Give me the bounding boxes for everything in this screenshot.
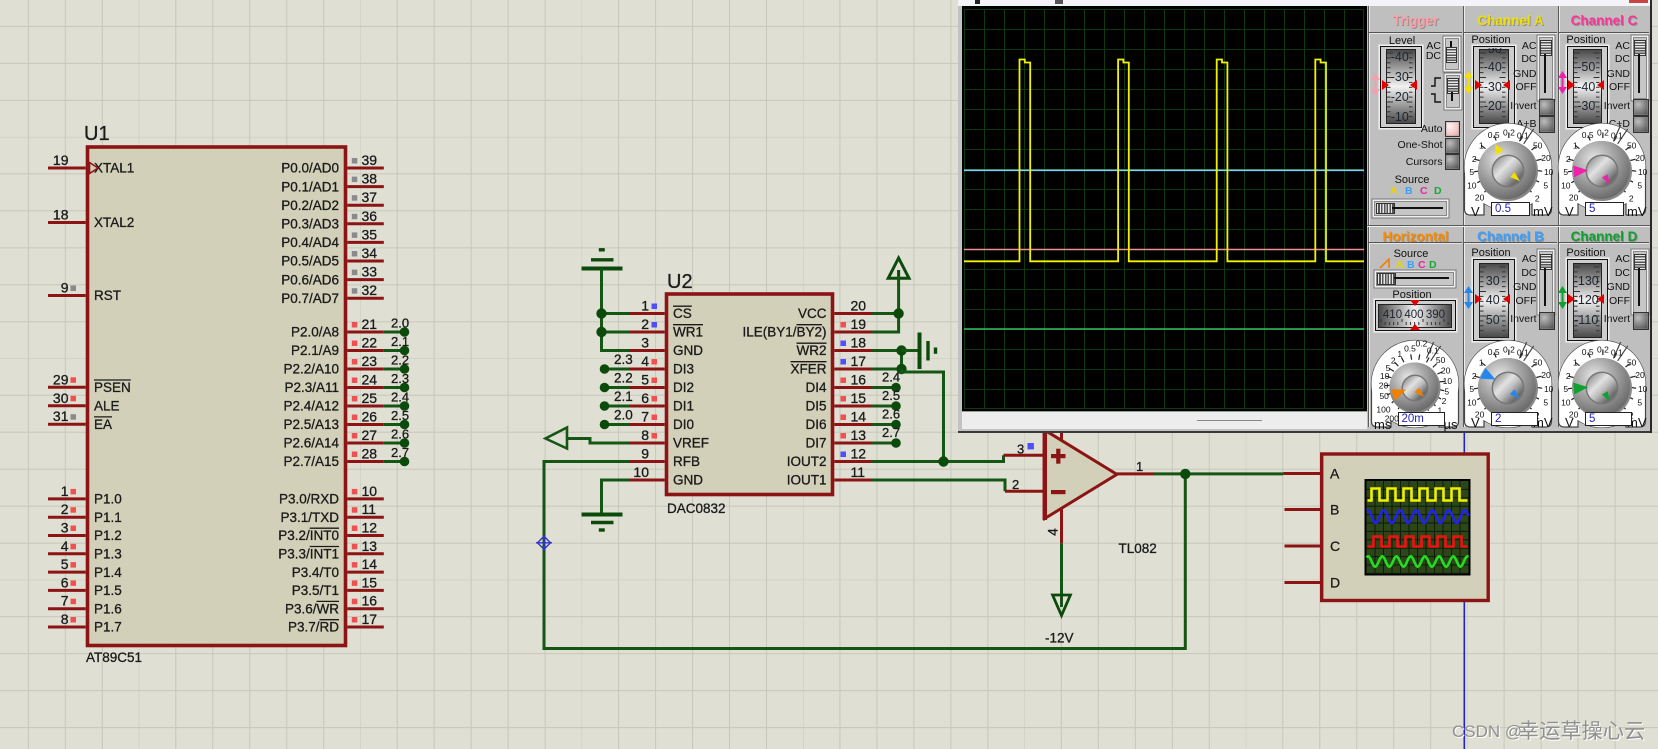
svg-text:19: 19 [851, 316, 867, 332]
svg-text:13: 13 [851, 427, 867, 443]
wire-end dot net 2.2 [600, 383, 610, 393]
horizontal timebase knob [1368, 337, 1462, 429]
svg-text:11: 11 [362, 501, 377, 517]
svg-text:0.2: 0.2 [1503, 344, 1515, 354]
svg-text:0.1: 0.1 [1517, 347, 1529, 357]
power symbol -12V arrow [1053, 595, 1071, 616]
svg-text:PSEN: PSEN [94, 380, 131, 395]
svg-text:P3.6/WR: P3.6/WR [285, 601, 339, 616]
svg-text:2.1: 2.1 [614, 389, 633, 404]
svg-text:15: 15 [362, 574, 378, 590]
wire net 2.0 from pin 21 [384, 331, 402, 334]
graph pin A [1283, 472, 1322, 475]
svg-text:P3.4/T0: P3.4/T0 [292, 565, 339, 580]
wire net 2.3 to U2 DI3 [606, 368, 629, 371]
svg-text:DI1: DI1 [673, 399, 694, 414]
svg-text:0.1: 0.1 [1427, 345, 1439, 355]
wire op-amp output to graph A [1154, 472, 1283, 475]
op-amp pin 4 V- [1060, 508, 1063, 543]
svg-text:P2.1/A9: P2.1/A9 [291, 343, 339, 358]
channel B position line (cyan) [964, 169, 1364, 171]
svg-text:GND: GND [673, 473, 703, 488]
wire net 2.0 to U2 DI0 [606, 423, 629, 426]
svg-text:CS: CS [673, 306, 692, 321]
4-channel analogue graph body [1322, 454, 1489, 601]
channel D position line (green) [964, 328, 1364, 330]
svg-text:VCC: VCC [798, 306, 827, 321]
svg-text:D: D [1330, 575, 1340, 591]
svg-text:5: 5 [1543, 397, 1548, 407]
U1 pin 22 P2.1/A9 [347, 349, 384, 352]
svg-text:DI5: DI5 [805, 399, 826, 414]
svg-text:P2.3/A11: P2.3/A11 [284, 380, 339, 395]
junction dot net 2.0 [400, 327, 410, 337]
wire WR2/XFER ground net [872, 349, 902, 352]
svg-text:14: 14 [851, 409, 867, 425]
channel A gain knob [1461, 120, 1555, 217]
junction dot net 2.1 [400, 346, 410, 356]
U1 pin 35 P0.4/AD4 [347, 241, 384, 244]
svg-text:2: 2 [1442, 396, 1447, 406]
svg-text:37: 37 [362, 189, 378, 205]
svg-text:U2: U2 [667, 271, 693, 293]
U1 pin 16 P3.6/WR [347, 607, 384, 610]
svg-text:6: 6 [61, 574, 69, 590]
svg-text:10: 10 [1638, 384, 1648, 394]
svg-text:5: 5 [1563, 384, 1568, 394]
Channel C panel [1559, 13, 1649, 28]
svg-text:P2.7/A15: P2.7/A15 [283, 454, 339, 469]
U1 pin 4 P1.3 [48, 552, 86, 555]
channel A position gauge [1473, 46, 1515, 128]
svg-text:0.5: 0.5 [1488, 130, 1500, 140]
svg-text:16: 16 [851, 372, 867, 388]
svg-text:C: C [1330, 538, 1340, 554]
U1 pin 2 P1.1 [48, 516, 86, 519]
svg-text:0.1: 0.1 [1611, 130, 1623, 140]
svg-text:4: 4 [61, 538, 69, 554]
U1 pin 27 P2.6/A14 [347, 442, 384, 445]
svg-text:P3.5/T1: P3.5/T1 [292, 583, 339, 598]
U1 pin 12 P3.2/INT0 [347, 534, 384, 537]
svg-text:P1.2: P1.2 [94, 528, 122, 543]
svg-text:RST: RST [94, 288, 121, 303]
svg-text:IOUT2: IOUT2 [787, 454, 827, 469]
svg-text:20: 20 [1541, 153, 1551, 163]
svg-text:29: 29 [53, 371, 69, 387]
graph trace A (yellow square) [1368, 489, 1468, 501]
U1 pin 34 P0.5/AD5 [347, 260, 384, 263]
svg-text:28: 28 [362, 446, 378, 462]
wire-end dot net 2.3 [600, 364, 610, 374]
wire VCC to U2 pin20 and pin19 [872, 276, 899, 332]
svg-text:6: 6 [641, 390, 649, 406]
svg-text:32: 32 [362, 282, 378, 298]
Channel A panel [1466, 13, 1556, 28]
U2 pin 13 DI7 [834, 442, 871, 445]
svg-text:DI6: DI6 [805, 417, 826, 432]
svg-text:30: 30 [53, 390, 69, 406]
svg-text:0.5: 0.5 [1582, 130, 1594, 140]
watermark CSDN [1452, 722, 1522, 742]
wire net 2.7 to U2 DI7 [872, 442, 895, 445]
svg-text:AT89C51: AT89C51 [86, 650, 142, 665]
svg-text:P0.5/AD5: P0.5/AD5 [281, 254, 339, 269]
svg-text:5: 5 [1637, 180, 1642, 190]
channel C position line (pink) [964, 249, 1364, 251]
channel B coupling slider [1539, 251, 1554, 313]
svg-text:50: 50 [1436, 355, 1446, 365]
channel C gain knob [1555, 120, 1649, 217]
svg-text:100: 100 [1376, 405, 1390, 415]
svg-text:0.2: 0.2 [1503, 127, 1515, 137]
svg-text:5: 5 [1469, 167, 1474, 177]
window title bar (clipped) [958, 0, 1650, 6]
svg-text:ALE: ALE [94, 399, 120, 414]
junction dot net 2.5 [400, 420, 410, 430]
svg-text:50: 50 [1627, 357, 1637, 367]
graph trace C (red square) [1368, 537, 1468, 547]
svg-text:WR2: WR2 [797, 343, 827, 358]
svg-text:410 400 390: 410 400 390 [1383, 309, 1445, 321]
svg-text:DI0: DI0 [673, 417, 694, 432]
svg-text:1: 1 [641, 298, 649, 314]
wire-end dot net 2.0 [600, 420, 610, 430]
svg-text:26: 26 [362, 409, 378, 425]
svg-text:GND: GND [673, 343, 703, 358]
svg-text:2: 2 [1391, 356, 1396, 366]
ground symbol above U2 (CS/WR1/GND net) [599, 248, 605, 251]
junction dot net 2.4 [400, 401, 410, 411]
svg-text:2: 2 [61, 501, 69, 517]
U1 pin 36 P0.3/AD3 [347, 222, 384, 225]
svg-text:11: 11 [851, 464, 866, 480]
U2 pin 7 DI0 [629, 423, 665, 426]
svg-text:31: 31 [53, 408, 69, 424]
svg-text:9: 9 [61, 280, 69, 296]
U2 pin 9 RFB [629, 460, 665, 463]
svg-text:5: 5 [1563, 167, 1568, 177]
svg-text:1: 1 [1479, 357, 1484, 367]
sheet origin marker (blue diamond) [536, 535, 552, 551]
svg-text:20: 20 [1635, 370, 1645, 380]
svg-text:P0.6/AD6: P0.6/AD6 [281, 272, 339, 287]
junction dot output node [1180, 469, 1190, 479]
graph pin C [1285, 545, 1322, 548]
svg-text:2: 2 [1472, 154, 1477, 164]
svg-text:1: 1 [1479, 140, 1484, 150]
trigger source slider [1374, 201, 1447, 216]
screen bottom scrollbar strip [962, 411, 1368, 429]
U2 pin 4 DI3 [629, 368, 665, 371]
wire IOUT1 to op-amp inverting input [872, 480, 1006, 491]
U1 pin 23 P2.2/A10 [347, 368, 384, 371]
svg-text:P2.6/A14: P2.6/A14 [283, 436, 339, 451]
svg-text:3: 3 [61, 520, 69, 536]
Auto button [1445, 121, 1461, 137]
horizontal source slider [1376, 272, 1454, 287]
wire net 2.6 to U2 DI6 [872, 423, 895, 426]
U1 pin 24 P2.3/A11 [347, 386, 384, 389]
svg-text:20: 20 [1635, 153, 1645, 163]
wire net 2.1 to U2 DI1 [606, 405, 629, 408]
U2 pin 15 DI5 [834, 405, 871, 408]
svg-text:10: 10 [633, 464, 649, 480]
svg-text:50: 50 [1627, 140, 1637, 150]
svg-text:17: 17 [362, 611, 378, 627]
trigger AC/DC switch [1445, 38, 1459, 70]
svg-text:27: 27 [362, 427, 378, 443]
svg-text:0.2: 0.2 [1415, 339, 1427, 349]
wire net 2.4 from pin 25 [384, 405, 402, 408]
svg-text:VREF: VREF [673, 436, 709, 451]
U1 pin 33 P0.6/AD6 [347, 278, 384, 281]
U1 pin 39 P0.0/AD0 [347, 167, 384, 170]
junction dot IOUT2 [938, 456, 948, 466]
U1 pin 19 XTAL1 [48, 167, 86, 170]
wire RFB feedback (U2.9 down and around to op-amp output) [544, 462, 1185, 649]
U1 pin 14 P3.4/T0 [347, 571, 384, 574]
svg-text:2: 2 [1535, 193, 1540, 203]
U1 pin 8 P1.7 [48, 626, 86, 629]
svg-text:21: 21 [362, 316, 378, 332]
svg-text:50: 50 [1533, 357, 1543, 367]
svg-text:10: 10 [1544, 167, 1554, 177]
svg-text:XTAL2: XTAL2 [94, 215, 134, 230]
U1 pin 3 P1.2 [48, 534, 86, 537]
wire U2 pin10 GND to ground [602, 480, 630, 514]
svg-text:P3.1/TXD: P3.1/TXD [280, 510, 339, 525]
wire-end dot net 2.6 [891, 420, 901, 430]
svg-text:10: 10 [1467, 397, 1477, 407]
U1 pin 7 P1.6 [48, 607, 86, 610]
svg-text:2.2: 2.2 [391, 353, 409, 368]
channel C coupling slider [1633, 37, 1648, 99]
U1 pin 17 P3.7/RD [347, 626, 384, 629]
svg-text:P0.1/AD1: P0.1/AD1 [281, 179, 339, 194]
svg-text:50: 50 [1533, 140, 1543, 150]
svg-text:18: 18 [851, 335, 867, 351]
svg-text:P1.3: P1.3 [94, 547, 122, 562]
svg-text:5: 5 [61, 556, 69, 572]
svg-text:18: 18 [53, 207, 69, 223]
junction dot net 2.6 [400, 438, 410, 448]
U2 pin 12 IOUT2 [834, 460, 871, 463]
sheet border line (blue) [1463, 430, 1465, 749]
svg-text:DI4: DI4 [805, 380, 827, 395]
svg-text:5: 5 [1469, 384, 1474, 394]
svg-text:16: 16 [362, 593, 378, 609]
wire VREF input with arrow terminal [566, 439, 629, 444]
scope CRT screen [962, 6, 1368, 411]
svg-text:P0.2/AD2: P0.2/AD2 [281, 198, 339, 213]
U1 pin 15 P3.5/T1 [347, 589, 384, 592]
U1 pin 21 P2.0/A8 [347, 331, 384, 334]
DAC U2 DAC0832 body [667, 294, 833, 495]
wire IOUT2 to op-amp non-inverting input [872, 455, 1004, 461]
graph trace B (blue wave) [1367, 510, 1469, 523]
svg-text:20: 20 [1569, 193, 1579, 203]
U2 pin 1 CS [629, 312, 665, 315]
svg-text:2: 2 [641, 316, 649, 332]
horizontal position odometer [1375, 300, 1456, 331]
svg-text:35: 35 [362, 226, 378, 242]
svg-text:8: 8 [641, 427, 649, 443]
oscilloscope instrument window [958, 0, 1650, 433]
U2 pin 8 VREF [629, 442, 665, 445]
U2 pin 16 DI4 [834, 386, 871, 389]
channel D gain knob [1555, 337, 1649, 429]
svg-text:2.3: 2.3 [391, 371, 409, 386]
junction dot XFER [896, 364, 906, 374]
svg-text:1: 1 [1573, 357, 1578, 367]
svg-text:3: 3 [1017, 442, 1024, 457]
svg-text:P2.5/A13: P2.5/A13 [283, 417, 339, 432]
svg-text:34: 34 [362, 245, 378, 261]
svg-text:10: 10 [1544, 384, 1554, 394]
U2 pin 2 WR1 [629, 331, 665, 334]
channel C position gauge [1567, 46, 1609, 128]
Horizontal panel [1371, 229, 1461, 244]
U1 pin 29 PSEN [48, 386, 86, 389]
graph pin D [1285, 581, 1322, 584]
svg-text:2.0: 2.0 [391, 316, 409, 331]
svg-text:39: 39 [362, 152, 378, 168]
U2 pin 5 DI2 [629, 386, 665, 389]
wire net 2.5 to U2 DI5 [872, 405, 895, 408]
wire net 2.6 from pin 27 [384, 442, 402, 445]
junction dot pin1/CS [596, 308, 606, 318]
svg-text:U1: U1 [84, 123, 110, 145]
svg-text:WR1: WR1 [673, 325, 703, 340]
svg-text:XTAL1: XTAL1 [94, 161, 134, 176]
U1 XTAL1 clock input arrow [90, 163, 99, 174]
U2 pin 18 WR2 [834, 349, 871, 352]
svg-text:2.0: 2.0 [614, 408, 633, 423]
wire net 2.4 to U2 DI4 [872, 386, 895, 389]
U1 pin 11 P3.1/TXD [347, 516, 384, 519]
junction dot WR2 [896, 345, 906, 355]
svg-text:P1.6: P1.6 [94, 601, 122, 616]
svg-text:P1.0: P1.0 [94, 492, 122, 507]
U1 pin 25 P2.4/A12 [347, 405, 384, 408]
svg-text:5: 5 [1543, 180, 1548, 190]
svg-text:2.6: 2.6 [391, 427, 409, 442]
svg-text:36: 36 [362, 208, 378, 224]
svg-text:10: 10 [1561, 397, 1571, 407]
U2 pin 14 DI6 [834, 423, 871, 426]
wire net 2.5 from pin 26 [384, 423, 402, 426]
svg-text:20: 20 [1475, 193, 1485, 203]
svg-text:0.5: 0.5 [1488, 347, 1500, 357]
svg-text:20: 20 [851, 298, 867, 314]
Channel B panel [1466, 229, 1556, 244]
horizontal source ramp icon [1379, 258, 1394, 269]
svg-text:2: 2 [1012, 477, 1019, 492]
svg-text:2.6: 2.6 [882, 407, 900, 422]
svg-text:P3.7/RD: P3.7/RD [288, 620, 339, 635]
svg-text:5: 5 [641, 372, 649, 388]
U1 pin 5 P1.4 [48, 571, 86, 574]
svg-text:19: 19 [53, 152, 69, 168]
junction dot pin2/WR1 [596, 327, 606, 337]
svg-text:25: 25 [362, 390, 378, 406]
svg-text:4: 4 [641, 353, 649, 369]
svg-text:5: 5 [1444, 386, 1449, 396]
power symbol VCC arrow above U2 [888, 258, 909, 278]
svg-text:2: 2 [1566, 371, 1571, 381]
U1 pin 31 EA [48, 423, 86, 426]
svg-text:2.1: 2.1 [391, 334, 409, 349]
svg-text:2: 2 [1629, 193, 1634, 203]
U2 pin 6 DI1 [629, 405, 665, 408]
Channel D panel [1559, 229, 1649, 244]
svg-text:9: 9 [641, 446, 649, 462]
svg-text:2.4: 2.4 [391, 390, 409, 405]
svg-text:33: 33 [362, 264, 378, 280]
control panel area [1367, 6, 1650, 428]
svg-text:1: 1 [1397, 349, 1402, 359]
svg-text:TL082: TL082 [1119, 541, 1157, 556]
svg-text:8: 8 [61, 611, 69, 627]
svg-text:2.5: 2.5 [882, 388, 900, 403]
svg-text:10: 10 [1467, 180, 1477, 190]
svg-text:14: 14 [362, 556, 378, 572]
svg-text:XFER: XFER [790, 362, 826, 377]
svg-text:0.2: 0.2 [1597, 127, 1609, 137]
window close button sliver [1629, 0, 1649, 3]
graph trace D (green wave) [1367, 556, 1469, 566]
svg-text:13: 13 [362, 538, 378, 554]
svg-text:10: 10 [362, 483, 378, 499]
wire net 2.2 from pin 23 [384, 368, 402, 371]
svg-text:4: 4 [1046, 528, 1061, 536]
svg-text:2.7: 2.7 [882, 425, 900, 440]
svg-text:2: 2 [1472, 371, 1477, 381]
U2 pin 10 GND [629, 479, 665, 482]
svg-text:DI7: DI7 [805, 436, 826, 451]
wire-end dot net 2.7 [891, 438, 901, 448]
svg-text:3: 3 [641, 335, 649, 351]
svg-text:15: 15 [851, 390, 867, 406]
wire-end dot net 2.5 [891, 401, 901, 411]
channel A coupling slider [1539, 37, 1554, 99]
svg-text:10: 10 [1638, 167, 1648, 177]
U1 pin 1 P1.0 [48, 497, 86, 500]
svg-text:-12V: -12V [1045, 631, 1074, 646]
graph pin B [1285, 508, 1322, 511]
svg-text:0.1: 0.1 [1517, 130, 1529, 140]
svg-text:7: 7 [641, 409, 649, 425]
U1 pin 30 ALE [48, 404, 86, 407]
wire XFER junction down to IOUT2 net [902, 369, 944, 462]
svg-text:23: 23 [362, 353, 378, 369]
svg-text:12: 12 [851, 446, 867, 462]
channel B gain knob [1461, 337, 1555, 429]
junction dot net 2.2 [400, 364, 410, 374]
svg-text:DI2: DI2 [673, 380, 694, 395]
wire-end dot net 2.4 [891, 383, 901, 393]
channel A trace (yellow pulses) [964, 60, 1364, 262]
svg-text:P2.0/A8: P2.0/A8 [291, 325, 339, 340]
U1 pin 18 XTAL2 [48, 221, 86, 224]
svg-text:P0.4/AD4: P0.4/AD4 [281, 235, 339, 250]
svg-text:22: 22 [362, 335, 378, 351]
svg-text:P2.4/A12: P2.4/A12 [283, 399, 339, 414]
svg-text:P3.0/RXD: P3.0/RXD [279, 492, 339, 507]
svg-text:1: 1 [1136, 459, 1143, 474]
op-amp pin 1 output [1117, 472, 1154, 475]
